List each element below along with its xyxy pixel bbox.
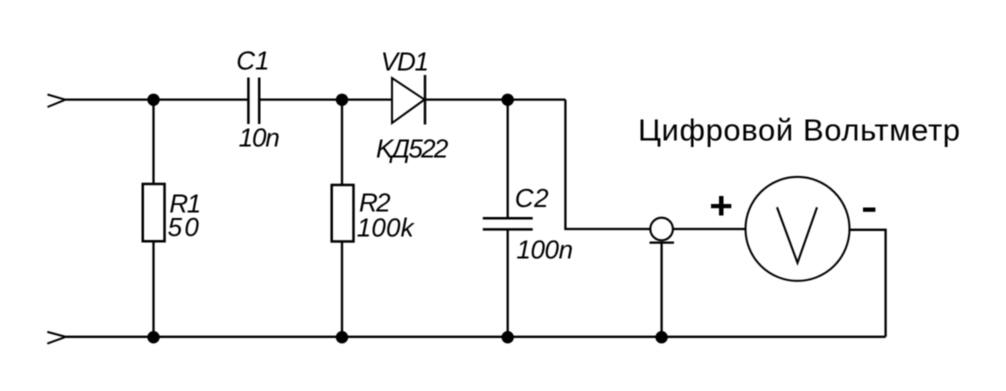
svg-text:KД522: KД522 — [376, 133, 449, 163]
plus symbol — [711, 196, 731, 216]
input terminal top arrow — [48, 95, 65, 108]
wire C2 bottom — [507, 231, 509, 337]
node dot bottom C2 — [502, 331, 514, 343]
open terminal circle — [650, 218, 673, 241]
svg-text:100k: 100k — [357, 213, 416, 243]
wire R2 top — [341, 100, 343, 184]
wire bottom rail — [63, 336, 886, 338]
svg-text:C2: C2 — [515, 183, 549, 213]
wire R2 bottom — [341, 243, 343, 337]
wire R1 bottom — [152, 243, 154, 337]
node junction dot top R2 — [336, 94, 348, 106]
node dot bottom R2 — [336, 331, 348, 343]
terminal tick — [650, 242, 675, 244]
input terminal bottom arrow — [47, 332, 64, 344]
resistor R1 body — [143, 184, 165, 241]
wire R1 top — [152, 100, 154, 183]
node dot bottom terminal — [655, 331, 667, 343]
svg-text:10n: 10n — [239, 123, 280, 153]
svg-text:C1: C1 — [236, 46, 269, 76]
svg-text:50: 50 — [168, 212, 200, 242]
svg-text:VD1: VD1 — [381, 47, 429, 77]
capacitor C2 plates — [483, 218, 533, 229]
node dot bottom R1 — [147, 331, 159, 343]
minus symbol — [863, 208, 875, 212]
node junction dot top C2 — [502, 94, 514, 106]
wire C2 top — [507, 100, 509, 217]
resistor R2 body — [332, 185, 354, 242]
node junction dot top R1 — [147, 94, 159, 106]
voltmeter V mark — [777, 207, 817, 262]
voltmeter U1 circle — [746, 177, 850, 281]
svg-text:100n: 100n — [516, 235, 573, 265]
wire diode cathode to corner — [425, 98, 565, 100]
diode VD1 — [392, 75, 425, 125]
wire voltmeter right and down — [850, 230, 886, 337]
wire top rail: arrow to C1 left plate — [63, 98, 248, 100]
svg-text:Цифровой Вольтметр: Цифровой Вольтметр — [638, 113, 960, 148]
wire C1 to diode anode — [260, 98, 393, 100]
capacitor C1 plates — [248, 78, 259, 125]
wire corner down and right to terminal — [565, 100, 650, 229]
wire terminal to voltmeter — [673, 228, 746, 230]
wire terminal down to bottom rail — [660, 243, 662, 337]
